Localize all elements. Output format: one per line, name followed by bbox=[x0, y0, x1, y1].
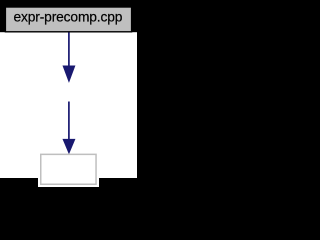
node expr-precomp.cpp bbox=[5, 7, 131, 32]
wire edge 1 shaft bbox=[68, 32, 70, 67]
transparent canvas (renders black) bbox=[0, 0, 137, 187]
graph background channel below band bbox=[38, 178, 99, 187]
node empty box bbox=[41, 154, 96, 184]
svg-text:expr-precomp.cpp: expr-precomp.cpp bbox=[14, 10, 123, 25]
edge 2 arrowhead bbox=[63, 139, 75, 153]
wire edge 2 shaft bbox=[68, 102, 70, 141]
edge 1 arrowhead bbox=[63, 66, 75, 82]
graph background band bbox=[0, 32, 137, 178]
